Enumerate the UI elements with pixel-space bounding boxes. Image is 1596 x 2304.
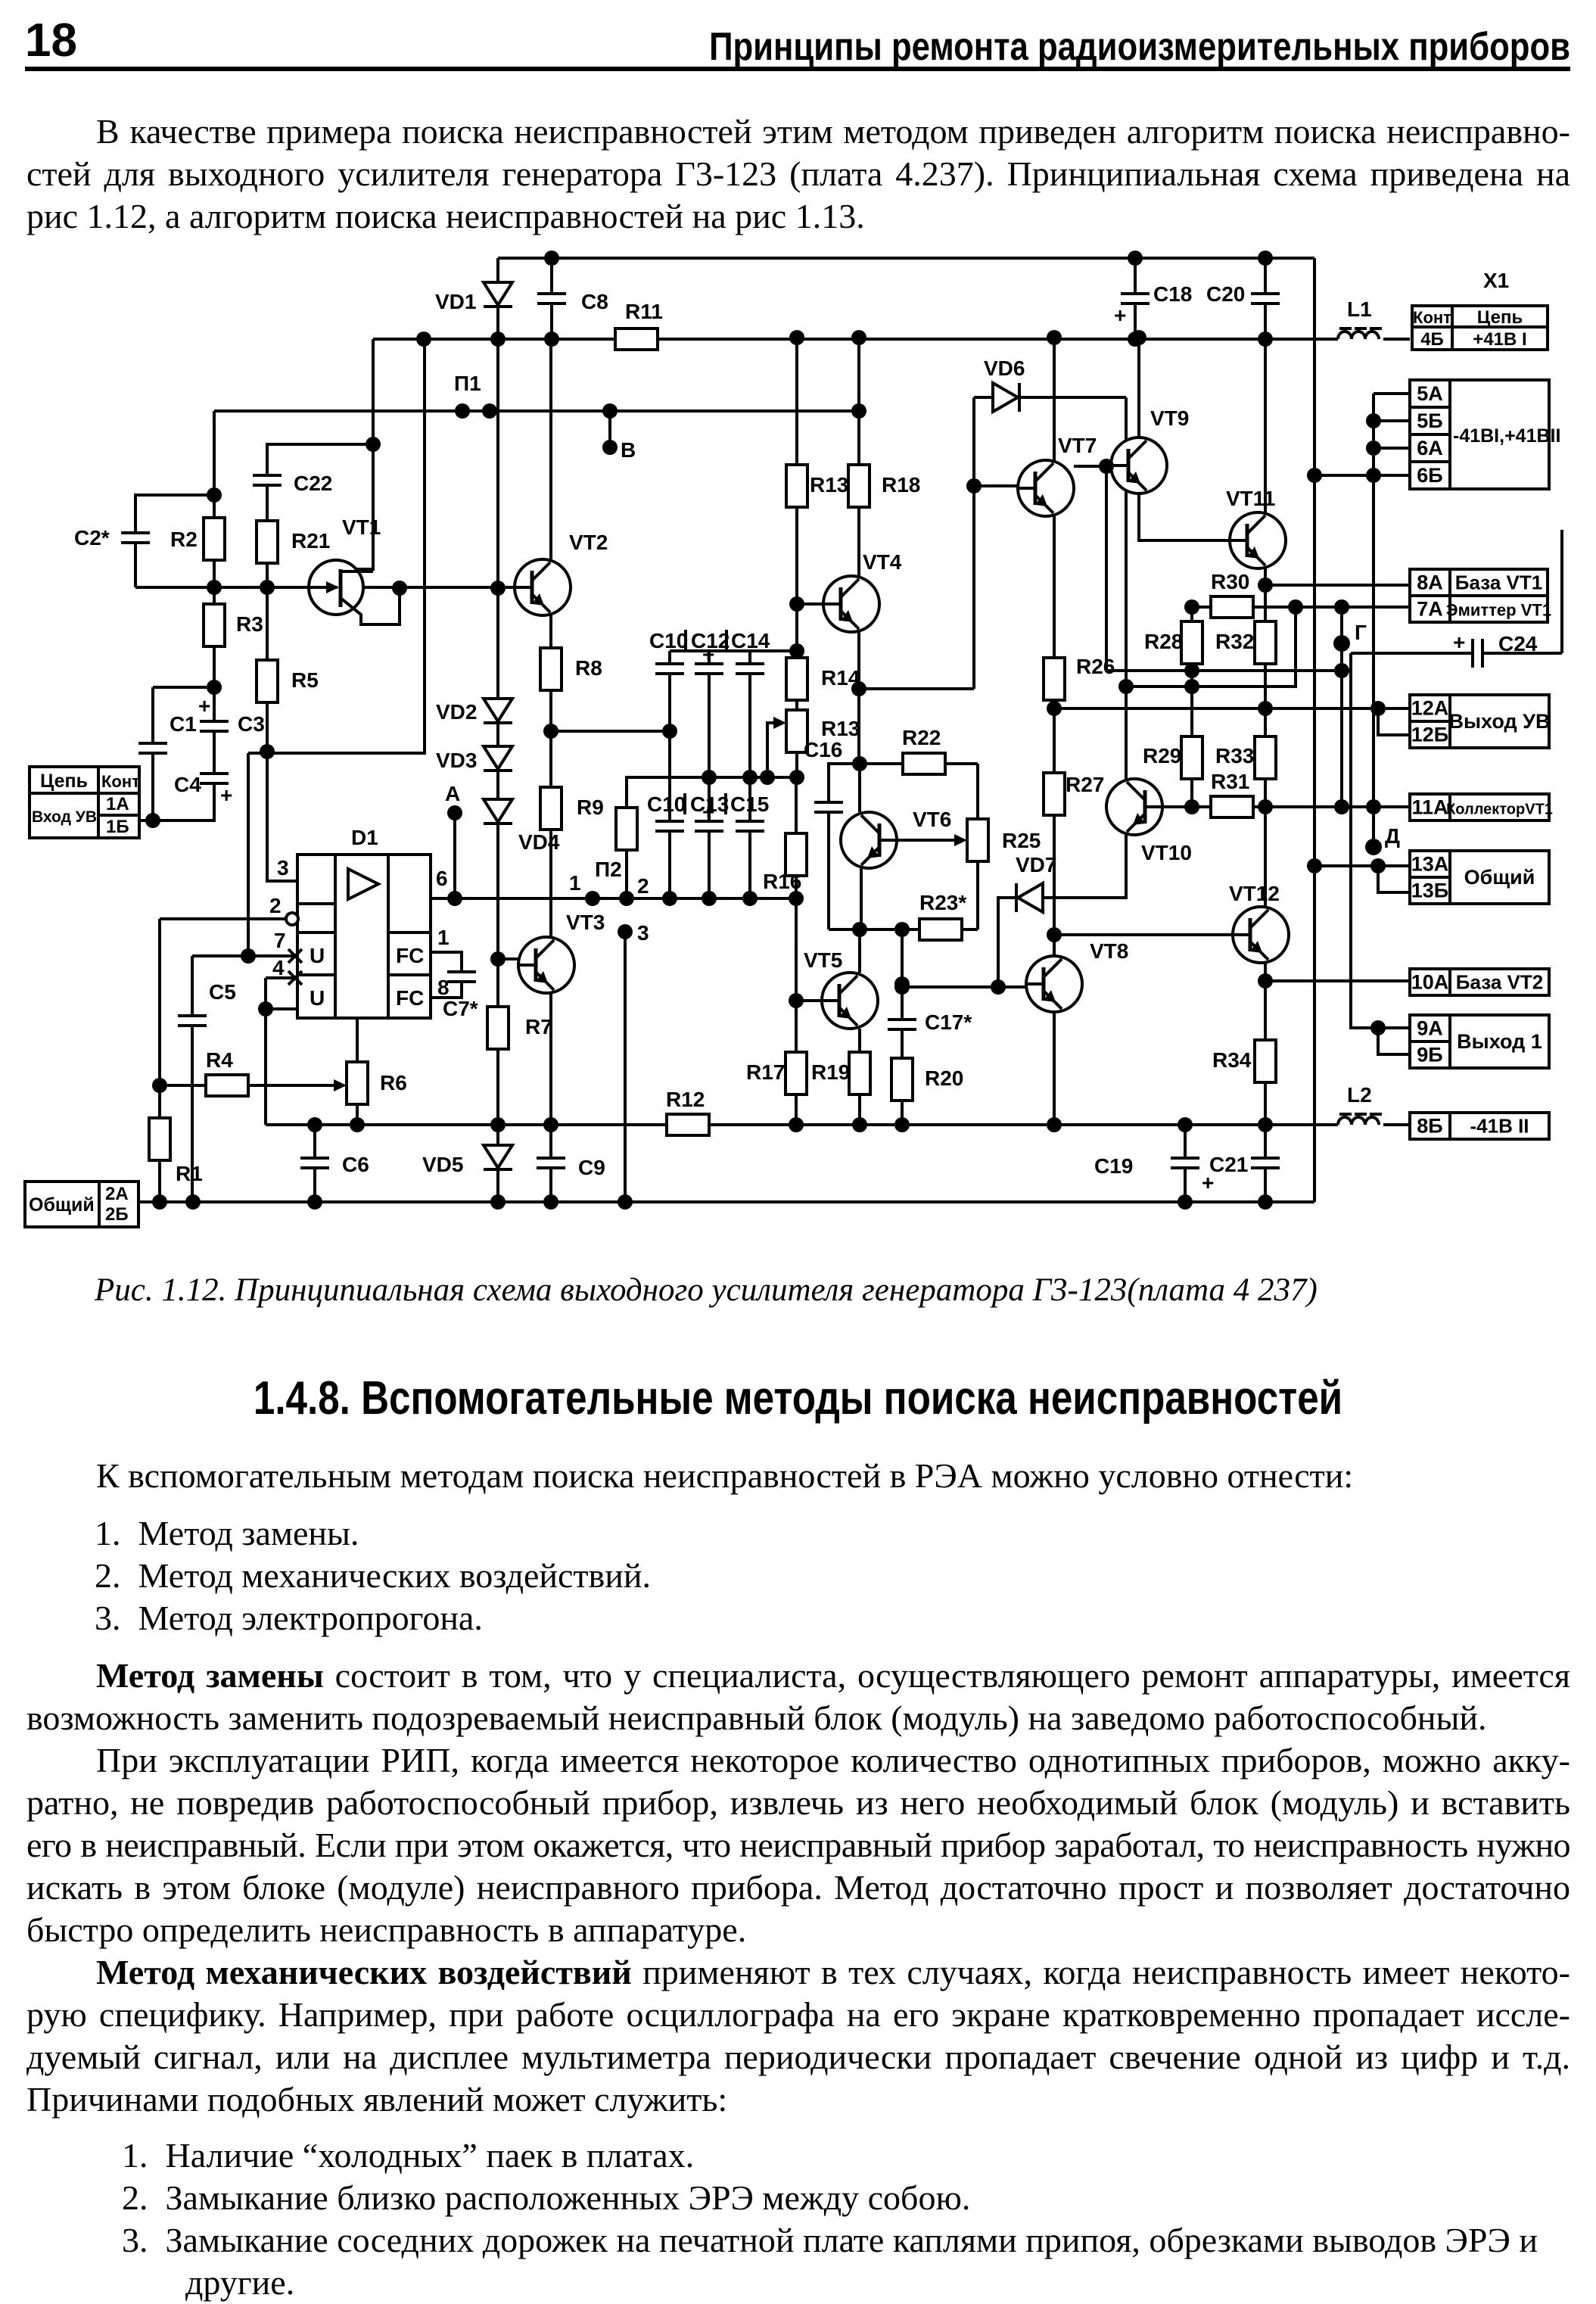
wire C14-C15 column (748, 651, 751, 898)
capacitor C10 lower (647, 792, 686, 831)
op-amp D1 pin 7 X mark (288, 949, 302, 963)
capacitor C3 (198, 694, 265, 736)
svg-text:R2: R2 (170, 528, 198, 551)
connector cell 12B (1410, 721, 1450, 748)
svg-text:1: 1 (569, 871, 581, 895)
wire VT10 emitter to VD7 (1043, 835, 1126, 898)
svg-text:Вход УВ: Вход УВ (32, 808, 97, 826)
wire x328 drop to pin7 (247, 753, 250, 956)
connector cell KollektorVT1 (1446, 794, 1553, 820)
svg-text:VT9: VT9 (1150, 406, 1189, 430)
svg-text:База VT1: База VT1 (1455, 571, 1542, 594)
svg-text:+: + (1114, 304, 1126, 327)
connector cell -41V II (1450, 1113, 1549, 1139)
wire main bus y448 (373, 338, 1410, 341)
transistor VT5 (804, 948, 878, 1029)
connector cell 11A (1410, 794, 1450, 820)
junction dots bottom bus (307, 1117, 1273, 1132)
wire 5B link (1374, 419, 1410, 422)
capacitor C19 (1094, 1154, 1214, 1194)
svg-text:9Б: 9Б (1417, 1044, 1442, 1066)
svg-text:Эмиттер VT1: Эмиттер VT1 (1446, 601, 1551, 620)
capacitor C12 (691, 629, 730, 674)
svg-text:R7: R7 (525, 1015, 552, 1038)
connector cell -41BI+41BII (1450, 380, 1549, 489)
svg-text:C10: C10 (649, 629, 688, 652)
wire VT6 base to R25 (897, 839, 960, 842)
wire bus448 to x561 drop (248, 339, 425, 753)
resistor R25 (967, 819, 1041, 861)
wire pin4 drop (266, 978, 294, 1125)
wire VD6 left drop (972, 397, 975, 689)
junction dots caps top bus (789, 643, 804, 659)
node G terminal (1333, 635, 1350, 652)
svg-text:13Б: 13Б (1411, 880, 1448, 902)
resistor R13 (786, 465, 848, 507)
svg-text:R26: R26 (1076, 655, 1115, 678)
capacitor C17* (888, 1010, 972, 1034)
wire R28 column (1190, 607, 1193, 807)
svg-text:C1: C1 (170, 712, 197, 736)
wire VT10 base link (1162, 805, 1192, 808)
wire VD7 cathode drop (998, 898, 1016, 987)
wire C17 R20 column (901, 929, 904, 1125)
wire pin2 link (160, 919, 285, 1085)
svg-text:13А: 13А (1411, 853, 1449, 876)
capacitor C15 (730, 792, 769, 831)
svg-text:6: 6 (436, 867, 448, 890)
wire VT9 bias drop x1462 (1105, 466, 1108, 671)
svg-text:12Б: 12Б (1411, 724, 1448, 746)
resistor R29 (1143, 736, 1202, 779)
transistor VT6 (841, 808, 951, 868)
svg-text:U: U (310, 986, 325, 1010)
resistor R23* (919, 891, 966, 940)
svg-text:П1: П1 (454, 372, 481, 395)
diode VD1 (435, 282, 512, 313)
wire G test column (1340, 607, 1343, 807)
resistor R27 (1044, 773, 1104, 815)
wire VT9 base link (1074, 465, 1111, 468)
inductor L2 (1338, 1083, 1382, 1125)
connector X1 cell +41V I (1452, 327, 1548, 350)
capacitor C10 upper (649, 629, 688, 674)
svg-text:+: + (702, 643, 714, 666)
svg-text:VT7: VT7 (1058, 434, 1097, 457)
svg-text:R16: R16 (763, 870, 801, 893)
wire 7A link (1192, 606, 1410, 609)
svg-text:4: 4 (272, 956, 285, 979)
separator C10 C12 C14 labels (686, 630, 726, 651)
wire R3 column (213, 587, 216, 687)
capacitor C4 (174, 773, 232, 807)
resistor R8 (540, 648, 602, 690)
svg-text:Общий: Общий (29, 1194, 95, 1216)
svg-text:Общий: Общий (1464, 866, 1535, 889)
connector cell Vyhod 1 (1450, 1015, 1549, 1068)
wire R26-R27 link (1053, 700, 1056, 773)
svg-text:R33: R33 (1215, 744, 1254, 767)
svg-text:C5: C5 (209, 980, 236, 1004)
svg-text:1: 1 (437, 926, 450, 949)
svg-text:R1: R1 (176, 1162, 203, 1185)
wire x1815 connector rail (1372, 394, 1375, 847)
resistor R9 (540, 787, 604, 830)
wire C24 links (1351, 530, 1562, 653)
svg-text:VD7: VD7 (1016, 853, 1056, 876)
wire R18 column (857, 339, 860, 576)
svg-text:C3: C3 (238, 712, 265, 736)
svg-text:C24: C24 (1498, 632, 1538, 655)
svg-text:Цепь: Цепь (40, 771, 88, 792)
wire VT4 base (797, 602, 823, 606)
wire VT4 emitter column (857, 632, 860, 764)
resistor R34 (1212, 1040, 1276, 1082)
svg-text:+: + (702, 800, 714, 824)
page number (25, 20, 77, 62)
connector cell Obshchiy right (1450, 851, 1549, 904)
resistor R12 (666, 1088, 709, 1135)
svg-text:L2: L2 (1347, 1083, 1372, 1107)
transistor VT4 (823, 550, 902, 632)
capacitor C1 (138, 712, 197, 753)
connector cell 13B (1410, 877, 1450, 904)
wire VT1 drain riser x493 (341, 339, 373, 569)
caption (95, 1272, 1318, 1309)
resistor R32 (1215, 621, 1276, 664)
svg-text:R8: R8 (575, 656, 602, 680)
svg-text:VD4: VD4 (518, 830, 560, 854)
svg-text:X1: X1 (1483, 269, 1509, 292)
wire C22 tap (267, 444, 373, 475)
transistor VT9 (1111, 406, 1189, 493)
wire C2* link (135, 495, 214, 587)
svg-text:R9: R9 (577, 796, 604, 819)
svg-text:VD2: VD2 (436, 700, 477, 724)
op-amp D1 pin 2 inverter circle (286, 913, 298, 925)
resistor R1 (149, 1118, 203, 1185)
connector cell 10A (1410, 969, 1450, 995)
wire 9B hook (1378, 1028, 1410, 1054)
wire VT3 emitter (549, 993, 552, 1125)
svg-text:-41ВI,+41ВII: -41ВI,+41ВII (1453, 425, 1560, 447)
svg-text:-41В II: -41В II (1470, 1115, 1529, 1138)
wire upper cap group bus y860 (670, 649, 797, 652)
wire pin6 bus y1187 (431, 897, 796, 900)
svg-text:+41В I: +41В I (1473, 329, 1526, 350)
svg-text:5Б: 5Б (1417, 409, 1442, 432)
wire P2 resistor top (627, 777, 797, 808)
resistor R33 (1215, 736, 1276, 779)
svg-text:+: + (198, 694, 210, 718)
wire C8 column (550, 258, 553, 339)
svg-text:5А: 5А (1417, 382, 1443, 405)
svg-text:+: + (220, 783, 232, 807)
svg-text:C15: C15 (730, 792, 769, 816)
svg-text:U: U (310, 944, 325, 967)
wire R6 top link (266, 1009, 357, 1062)
wire C1 column (151, 687, 154, 820)
svg-text:C22: C22 (294, 472, 332, 495)
capacitor C14 (731, 629, 770, 674)
resistor R18 (848, 465, 920, 507)
svg-text:КоллекторVT1: КоллекторVT1 (1446, 802, 1553, 818)
svg-text:Выход 1: Выход 1 (1457, 1030, 1542, 1053)
junction VT3 base node (490, 951, 506, 967)
diode VD4 (484, 799, 560, 854)
connector cell 8B (1410, 1113, 1450, 1139)
svg-text:R5: R5 (291, 668, 319, 692)
svg-text:12А: 12А (1411, 697, 1449, 720)
wire R27 to VT8 collector (1053, 815, 1056, 956)
svg-text:C20: C20 (1206, 282, 1245, 306)
svg-text:3: 3 (637, 921, 649, 945)
wire R4 line (160, 1084, 339, 1087)
wire 10A link (1265, 979, 1410, 982)
separator C10 C13 C15 labels (685, 793, 726, 814)
svg-text:VT2: VT2 (569, 531, 608, 554)
wire 12B hook (1378, 708, 1410, 735)
svg-text:R22: R22 (902, 726, 941, 749)
resistor R7 (487, 1007, 552, 1049)
svg-text:+: + (1453, 630, 1465, 654)
resistor R3 (204, 604, 263, 646)
node A terminal (447, 805, 462, 820)
svg-text:R3: R3 (236, 612, 263, 636)
wire C24 left drop to 9A (1351, 653, 1410, 1028)
resistor R4 (206, 1048, 248, 1096)
capacitor C2* (74, 526, 150, 550)
wire R2 column (213, 411, 216, 587)
capacitor C18 (1114, 282, 1192, 327)
svg-text:7: 7 (274, 929, 286, 952)
svg-text:C18: C18 (1153, 282, 1192, 306)
svg-text:Цепь: Цепь (1477, 307, 1523, 328)
wire R13 wiper (767, 723, 779, 777)
connector cell 12A (1410, 695, 1450, 721)
transistor VT2 (515, 531, 608, 615)
resistor R28 (1144, 621, 1202, 664)
svg-text:C19: C19 (1094, 1154, 1133, 1178)
svg-text:Г: Г (1355, 621, 1367, 644)
capacitor C8 (537, 290, 608, 313)
svg-text:R27: R27 (1066, 773, 1104, 796)
diode VD6 (984, 356, 1025, 412)
svg-text:C17*: C17* (925, 1010, 972, 1034)
wire node A stub (453, 813, 456, 898)
svg-text:R13: R13 (810, 473, 848, 497)
wire 13B hook (1378, 866, 1410, 892)
connector X1 cell Kont (1412, 306, 1452, 327)
capacitor C5 (178, 980, 236, 1026)
svg-text:Конт: Конт (101, 772, 140, 791)
junction dots y1027 bus (702, 770, 804, 785)
wire VT1-VT2 base bus (135, 586, 515, 589)
wire C21 column (1264, 1125, 1267, 1202)
junction dots VT7 VT9 area (1047, 459, 1114, 716)
wire VT8 base bus (902, 985, 1026, 989)
svg-text:VT1: VT1 (342, 515, 381, 539)
capacitor C13 (690, 792, 729, 831)
junction dots top area (416, 251, 1273, 347)
svg-text:2: 2 (269, 894, 282, 917)
svg-text:R6: R6 (380, 1071, 407, 1094)
wire VT9 collector (1137, 338, 1140, 437)
svg-text:6А: 6А (1417, 437, 1443, 459)
svg-text:4Б: 4Б (1420, 329, 1444, 350)
wire R19 bottom (858, 1094, 861, 1125)
wire R34 to bus (1264, 1082, 1267, 1125)
svg-text:VT3: VT3 (566, 911, 605, 934)
svg-text:П2: П2 (595, 858, 622, 881)
capacitor C16 (804, 738, 843, 812)
svg-text:R30: R30 (1211, 570, 1249, 593)
op-amp D1 pin 6 stub (431, 897, 455, 900)
svg-text:D1: D1 (351, 826, 378, 849)
diode VD7 (1016, 853, 1056, 912)
resistor R17 (746, 1052, 807, 1094)
svg-text:VD1: VD1 (435, 290, 476, 313)
svg-text:C7*: C7* (443, 997, 478, 1020)
connector cell 9B (1410, 1041, 1450, 1068)
junction dots pin6 bus (447, 891, 804, 906)
wire C10 column (668, 651, 671, 898)
svg-text:9А: 9А (1417, 1017, 1443, 1040)
wire VT5 emitter (858, 1029, 861, 1052)
wire R1 column (158, 1085, 161, 1202)
svg-text:R17: R17 (746, 1060, 785, 1084)
svg-text:R11: R11 (625, 300, 663, 323)
wire VT7 collector riser (1053, 338, 1056, 460)
diode VD3 (436, 746, 512, 772)
svg-text:C21: C21 (1209, 1153, 1248, 1176)
paragraph 1 (26, 111, 1570, 238)
transistor VT8 (1026, 939, 1128, 1012)
svg-text:6Б: 6Б (1417, 464, 1442, 487)
svg-text:R31: R31 (1211, 770, 1249, 793)
connector cell Emitter VT1 (1446, 596, 1551, 622)
junction dots emitter bus (852, 922, 910, 937)
op-amp D1 body (297, 826, 431, 1018)
svg-text:R29: R29 (1143, 744, 1181, 767)
wire VT4 emitter to VT7 base (859, 687, 974, 690)
resistor R14 (786, 658, 860, 700)
connector X1 cell Tsep (1452, 306, 1548, 328)
svg-text:1А: 1А (106, 794, 129, 814)
junction dots left mid (145, 437, 506, 964)
svg-text:VD6: VD6 (984, 356, 1025, 380)
wire VT6 collector (858, 764, 861, 812)
svg-text:L1: L1 (1347, 297, 1372, 321)
wire R16-R17 column (795, 777, 798, 1125)
svg-text:2Б: 2Б (105, 1204, 129, 1225)
wire VT2 collector (549, 339, 552, 564)
wire VT8 emitter drop (1053, 1012, 1056, 1125)
wire VT6 emitter bus (829, 861, 978, 929)
node D terminal (1365, 839, 1382, 855)
capacitor C21 (1209, 1153, 1280, 1176)
wire VD chain column (498, 588, 519, 1202)
connector cell 5A (1410, 380, 1450, 407)
junction dots ground bus (152, 1194, 1273, 1210)
junction dots VT11 area (1118, 578, 1386, 716)
wire C7* loop (431, 952, 462, 998)
wire 8A link (1265, 584, 1410, 587)
wire 13A link (1314, 864, 1410, 867)
svg-text:A: A (445, 782, 460, 805)
wire x1712 drop (1126, 607, 1296, 687)
wire ground bus y1588 (138, 1200, 1314, 1203)
junction dots left lower (152, 976, 910, 1093)
svg-text:R18: R18 (882, 473, 920, 497)
svg-text:R13: R13 (821, 717, 860, 740)
svg-text:R28: R28 (1144, 630, 1183, 653)
resistor R11 (615, 300, 663, 350)
svg-text:7А: 7А (1417, 598, 1443, 621)
svg-text:R32: R32 (1215, 630, 1254, 653)
switch P2 contact 3 terminal (618, 924, 633, 939)
wire 6A link (1374, 447, 1410, 450)
svg-text:R20: R20 (925, 1066, 963, 1090)
connector cell Baza VT2 (1450, 969, 1549, 995)
svg-text:C10: C10 (647, 792, 686, 816)
wire R22 line (860, 764, 978, 819)
connector cell 5B (1410, 407, 1450, 434)
svg-text:C6: C6 (342, 1153, 369, 1176)
svg-text:C8: C8 (581, 290, 608, 313)
svg-text:10А: 10А (1411, 971, 1449, 994)
wire C20 VT11 column (1264, 258, 1267, 512)
transistor VT12 (1229, 882, 1289, 963)
svg-text:VD3: VD3 (436, 749, 477, 772)
wire VT5 collector (858, 929, 861, 973)
capacitor C20 (1206, 282, 1280, 306)
svg-text:VD5: VD5 (422, 1153, 463, 1176)
connector cell 6B (1410, 462, 1450, 489)
svg-text:C9: C9 (578, 1156, 605, 1179)
transistor VT7 (1018, 434, 1097, 516)
svg-text:B: B (621, 438, 636, 462)
svg-text:8А: 8А (1417, 571, 1443, 594)
transistor VT1 (JFET) (309, 515, 400, 624)
svg-text:C14: C14 (731, 629, 770, 652)
header rule (25, 67, 1570, 71)
wire VD6 to VT10 collector (1125, 397, 1128, 779)
op-amp D1 pin 4 X mark (288, 971, 302, 985)
wire P2 contact2 riser (625, 850, 628, 898)
junction dots VT8 VT12 area (894, 927, 1386, 1035)
wire R13 column (795, 339, 798, 777)
wire top +41V bus (498, 257, 1314, 260)
capacitor C6 (300, 1153, 369, 1176)
svg-text:VT11: VT11 (1226, 487, 1275, 510)
capacitor C24 (1453, 630, 1538, 668)
svg-text:2: 2 (637, 874, 649, 898)
wire VT7 base (974, 484, 1018, 487)
connector cell 13A (1410, 851, 1450, 877)
junction dots VT4 area (789, 478, 982, 771)
resistor R21 (257, 521, 330, 563)
node B terminal (602, 440, 618, 455)
wire R8-R9 node (551, 690, 670, 787)
wire R6 bottom (356, 1104, 359, 1125)
connector cell 6A (1410, 434, 1450, 462)
capacitor C22 (253, 472, 332, 495)
svg-text:VT10: VT10 (1141, 841, 1192, 864)
inductor L1 (1338, 297, 1382, 339)
resistor R13 potentiometer (786, 710, 860, 752)
resistor R2 (170, 518, 225, 560)
